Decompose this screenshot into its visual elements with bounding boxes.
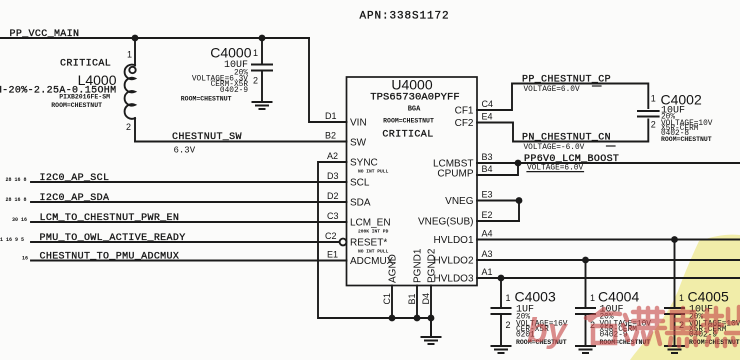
svg-text:U4000: U4000 [391, 77, 432, 93]
svg-text:ROOM=CHESTNUT: ROOM=CHESTNUT [661, 136, 712, 143]
svg-text:D4: D4 [421, 293, 431, 305]
ground for C4004 [576, 346, 595, 353]
svg-text:SW: SW [350, 138, 367, 149]
svg-text:C3: C3 [327, 211, 339, 221]
wire CHESTNUT_SW to pin B2 [135, 141, 347, 143]
svg-text:PIXB2016FE-SM: PIXB2016FE-SM [59, 94, 110, 101]
ground for C4003 [492, 346, 511, 353]
svg-text:30 16: 30 16 [12, 217, 27, 223]
svg-text:CHESTNUT_TO_PMU_ADCMUX: CHESTNUT_TO_PMU_ADCMUX [40, 252, 180, 263]
svg-text:2: 2 [506, 320, 511, 330]
svg-text:1: 1 [506, 293, 511, 303]
IC U4000 [347, 77, 478, 286]
svg-text:PMU_TO_OWL_ACTIVE_READY: PMU_TO_OWL_ACTIVE_READY [40, 233, 186, 244]
svg-text:28 16 8: 28 16 8 [6, 197, 27, 203]
svg-text:A3: A3 [482, 249, 493, 259]
wire CF1 (C4) to C4002 pin 1 [477, 84, 648, 111]
svg-text:SCL: SCL [350, 178, 370, 189]
wire I2C0_AP_SDA to pin D2 [31, 201, 347, 203]
ground for C4000 [253, 102, 272, 109]
wire VIN drop to pin D1 [309, 38, 347, 122]
svg-text:BGA: BGA [408, 106, 421, 114]
svg-text:D2: D2 [327, 191, 339, 201]
svg-text:AGND: AGND [388, 254, 399, 283]
node PGND2 junction [428, 315, 435, 322]
wire VNEG (E3) [477, 201, 519, 222]
wire PMU_TO_OWL_ACTIVE_READY to pin C2 [31, 241, 340, 243]
svg-text:C4004: C4004 [598, 289, 639, 305]
svg-text:CHESTNUT_SW: CHESTNUT_SW [172, 132, 242, 143]
node junction PP_VCC_MAIN / L4000 [132, 35, 139, 42]
watermark (decorative) [527, 307, 740, 350]
svg-text:E2: E2 [482, 210, 493, 220]
svg-text:28 16 8: 28 16 8 [6, 177, 27, 183]
wire ground bus under U4000 [392, 317, 431, 319]
svg-text:E3: E3 [482, 190, 493, 200]
svg-text:CF1: CF1 [455, 106, 474, 117]
svg-text:VOLTAGE=6.0V: VOLTAGE=6.0V [524, 86, 580, 94]
svg-text:HVLDO3: HVLDO3 [433, 274, 473, 285]
wire HVLDO3 (A1) [477, 277, 740, 279]
svg-text:VIN: VIN [350, 118, 367, 129]
svg-text:1: 1 [253, 48, 258, 58]
svg-text:1: 1 [590, 293, 595, 303]
wire HVLDO2 (A3) [477, 259, 740, 261]
svg-text:VNEG(SUB): VNEG(SUB) [418, 217, 474, 228]
svg-text:B4: B4 [482, 164, 493, 174]
wire C4005 drop [674, 240, 676, 309]
svg-text:VNEG: VNEG [445, 196, 474, 207]
svg-text:200K INT PD: 200K INT PD [358, 229, 389, 235]
node AGND junction [389, 315, 396, 322]
svg-text:C4005: C4005 [688, 289, 729, 305]
svg-text:C4003: C4003 [515, 289, 556, 305]
svg-text:C2: C2 [325, 231, 337, 241]
svg-text:TPS65730A0PYFF: TPS65730A0PYFF [370, 92, 460, 104]
svg-text:NO INT PULL: NO INT PULL [358, 169, 389, 175]
svg-text:1: 1 [127, 50, 132, 60]
node junction HVLDO2/C4004 [582, 257, 589, 264]
svg-text:A4: A4 [482, 229, 493, 239]
svg-text:C1: C1 [382, 293, 392, 305]
wire C4003 drop [500, 278, 502, 308]
wire AGND stub (C1) [391, 286, 393, 319]
svg-text:1: 1 [679, 293, 684, 303]
svg-text:SYNC: SYNC [350, 158, 378, 169]
svg-text:PGND2: PGND2 [427, 248, 438, 283]
capacitor C4005 [665, 289, 740, 347]
svg-text:6.3V: 6.3V [174, 146, 196, 156]
svg-text:B3: B3 [482, 152, 493, 162]
node junction PP_VCC_MAIN / C4000 [259, 35, 266, 42]
svg-text:NO INT PULL: NO INT PULL [358, 249, 389, 255]
capacitor C4002 [638, 92, 713, 144]
svg-text:LCM_TO_CHESTNUT_PWR_EN: LCM_TO_CHESTNUT_PWR_EN [40, 213, 180, 224]
svg-text:2: 2 [651, 120, 656, 130]
svg-text:HVLDO1: HVLDO1 [433, 235, 473, 246]
wire LCM_TO_CHESTNUT_PWR_EN to pin C3 [31, 221, 347, 223]
wire SYNC (A2) tied to ground [318, 162, 392, 318]
wire CHESTNUT_TO_PMU_ADCMUX to pin E1 [31, 260, 347, 262]
svg-text:I2C0_AP_SDA: I2C0_AP_SDA [40, 193, 110, 204]
svg-text:ROOM=CHESTNUT: ROOM=CHESTNUT [51, 102, 102, 109]
svg-text:C4000: C4000 [210, 45, 251, 61]
wire VNEG(SUB) (E2) [477, 220, 519, 222]
ground for U4000 [422, 318, 441, 344]
svg-text:I2C0_AP_SCL: I2C0_AP_SCL [40, 173, 110, 184]
svg-text:ROOM=CHESTNUT: ROOM=CHESTNUT [383, 118, 434, 125]
capacitor C4003 [492, 289, 568, 347]
node junction VNEG [516, 197, 523, 204]
svg-text:RESET*: RESET* [350, 238, 387, 249]
wire C4004 drop [585, 260, 587, 308]
svg-text:2: 2 [253, 76, 258, 86]
node junction HVLDO1/C4005 [671, 236, 678, 243]
svg-text:by: by [527, 312, 569, 350]
capacitor C4004 [576, 289, 651, 347]
svg-text:A1: A1 [482, 267, 493, 277]
svg-text:B2: B2 [325, 131, 336, 141]
svg-text:PGND1: PGND1 [413, 248, 424, 283]
wire PP6V0_LCM_BOOST (B3) [477, 162, 740, 164]
svg-text:CRITICAL: CRITICAL [382, 130, 433, 141]
svg-text:HVLDO2: HVLDO2 [433, 256, 473, 267]
svg-text:SDA: SDA [350, 198, 371, 209]
wire CF2 (E4) to C4002 pin 2 [477, 120, 648, 142]
node junction HVLDO3/C4003 [498, 275, 505, 282]
svg-text:ROOM=CHESTNUT: ROOM=CHESTNUT [181, 96, 232, 103]
svg-text:0402-9: 0402-9 [220, 87, 248, 95]
svg-text:D1: D1 [325, 111, 337, 121]
wire PGND1 stub (B1) [416, 286, 418, 319]
svg-text:A2: A2 [327, 151, 338, 161]
svg-text:2: 2 [126, 122, 131, 132]
svg-text:PP_CHESTNUT_CP: PP_CHESTNUT_CP [522, 75, 611, 86]
svg-text:C4: C4 [482, 99, 494, 109]
wire I2C0_AP_SCL to pin D3 [31, 181, 347, 183]
svg-text:1: 1 [651, 94, 656, 104]
svg-text:16: 16 [22, 256, 28, 262]
svg-text:PP6V0_LCM_BOOST: PP6V0_LCM_BOOST [524, 154, 619, 165]
highlight blob (decorative) [630, 235, 740, 360]
svg-text:1 16 9 5: 1 16 9 5 [0, 237, 24, 243]
ground for C4005 [665, 346, 684, 353]
svg-text:VOLTAGE=-6.0V: VOLTAGE=-6.0V [524, 144, 585, 152]
svg-text:APN:338S1172: APN:338S1172 [360, 11, 450, 23]
svg-text:B1: B1 [407, 293, 417, 304]
svg-text:CF2: CF2 [455, 118, 474, 129]
wire CPUMP (B4) [477, 163, 518, 175]
node junction LCMBST/CPUMP [515, 160, 522, 167]
capacitor C4000 [181, 38, 272, 103]
inductor L4000 [0, 38, 136, 142]
node PGND1 junction [414, 315, 421, 322]
svg-text:D3: D3 [327, 171, 339, 181]
wire PGND2 stub (D4) [430, 286, 432, 319]
svg-text:PP_VCC_MAIN: PP_VCC_MAIN [10, 29, 80, 40]
wire PP_VCC_MAIN [0, 37, 309, 39]
svg-text:LCM_EN: LCM_EN [350, 218, 391, 229]
svg-text:E1: E1 [327, 250, 338, 260]
svg-text:PN_CHESTNUT_CN: PN_CHESTNUT_CN [522, 133, 611, 144]
svg-text:CPUMP: CPUMP [437, 169, 473, 180]
pin C2 inversion bubble [340, 239, 347, 246]
svg-text:E4: E4 [482, 112, 493, 122]
svg-text:CRITICAL: CRITICAL [60, 59, 111, 70]
wire HVLDO1 (A4) [477, 239, 740, 241]
